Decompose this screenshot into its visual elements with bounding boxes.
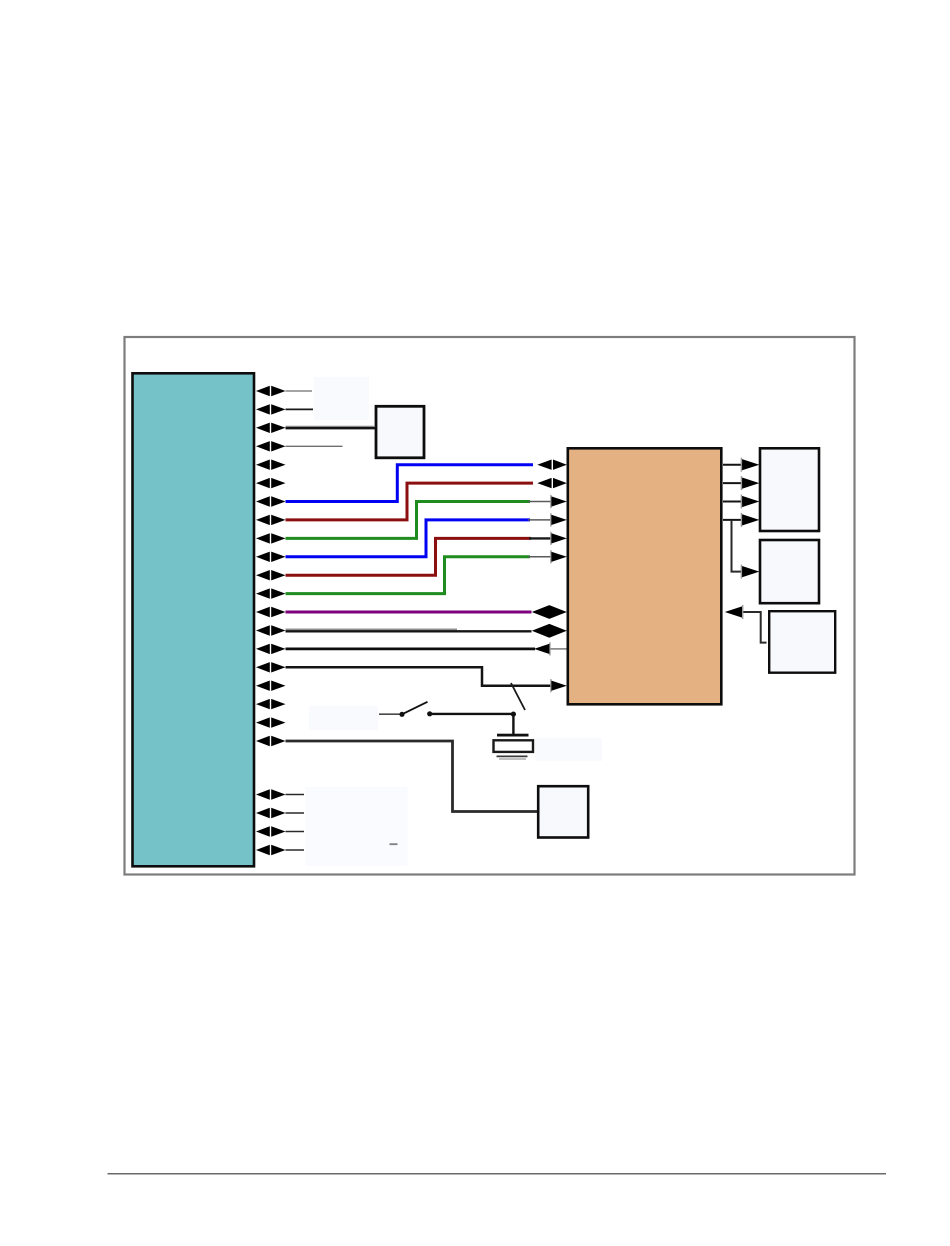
branch wire from line 4 down to B4 bbox=[732, 520, 746, 572]
port arrow P10 on U1 right edge bbox=[256, 552, 286, 562]
gray wire W8 upper stroke: P14 to U2 bbox=[286, 628, 458, 630]
purple wire W7: P13 to U2 bidir diamond port bbox=[286, 611, 532, 614]
port arrow P17 on U1 right edge bbox=[256, 681, 286, 691]
switch SW1 pole dot bbox=[399, 712, 404, 717]
link line W3 to arrowhead bbox=[528, 501, 552, 503]
port arrow P15 on U1 right edge bbox=[256, 644, 286, 654]
bidir diamond arrow at U2 (purple W7) bbox=[532, 605, 567, 619]
port arrow P4 on U1 right edge bbox=[256, 441, 286, 451]
port arrow P13 on U1 right edge bbox=[256, 607, 286, 617]
crystal Y1 shadow line bbox=[499, 758, 526, 760]
white box B4 (middle right) bbox=[760, 540, 819, 603]
microcontroller block U1 (teal) bbox=[133, 373, 255, 866]
stub wire at P1 bbox=[286, 390, 313, 392]
port arrow P18 on U1 right edge bbox=[256, 699, 286, 709]
white box B1 (top small, right of U1) bbox=[376, 406, 424, 458]
crystal Y1 body bbox=[494, 740, 534, 752]
wire from P3 to box B1 (gray top) bbox=[286, 425, 376, 427]
dark red wire W5: P11 to U2 input bbox=[286, 538, 532, 575]
switch SW1 left lead bbox=[379, 713, 400, 715]
black wire W11: P20 to box B2 bbox=[286, 741, 538, 812]
wire U2 to B3 line 4 bbox=[723, 519, 745, 521]
port arrow P3 on U1 right edge bbox=[256, 423, 286, 433]
port arrow P9 on U1 right edge bbox=[256, 533, 286, 543]
port arrow P23 on U1 right edge (lower group) bbox=[256, 826, 286, 836]
bidir double arrow at U2 left edge (blue wire W1) bbox=[537, 460, 567, 470]
input arrow into U2 (W4 blue) bbox=[550, 513, 567, 526]
output arrow from U2 toward U1 (W9) bbox=[534, 642, 551, 655]
port arrow P14 on U1 right edge bbox=[256, 625, 286, 635]
arrow into B3 line 2 bbox=[741, 476, 760, 490]
crystal Y1 top plate bbox=[497, 734, 529, 737]
wire from B5 to U2 right edge bbox=[741, 612, 767, 643]
wire U2 to B3 line 1 bbox=[723, 464, 745, 466]
blue wire W4: P10 to U2 input bbox=[286, 520, 531, 557]
switch SW1 throw dot bbox=[427, 711, 432, 716]
arrow into B4 bbox=[741, 565, 760, 579]
port arrow P5 on U1 right edge bbox=[256, 460, 286, 470]
bidir double arrow at U2 left edge (red wire W2) bbox=[537, 478, 567, 488]
stub wire at P4 bbox=[286, 445, 343, 447]
input arrow into U2 (W6 green) bbox=[550, 550, 567, 563]
port arrow P16 on U1 right edge bbox=[256, 662, 286, 672]
crystal Y1 lower plate line bbox=[497, 755, 528, 757]
stub wire at P24 bbox=[286, 849, 305, 851]
footer rule bbox=[108, 1173, 887, 1175]
black wire W10: P16 down-jog to U2 input bbox=[286, 667, 552, 685]
arrow into B3 line 4 bbox=[741, 513, 760, 527]
crystal Y1 stub wire bbox=[512, 714, 514, 735]
port arrow P1 on U1 right edge bbox=[256, 386, 286, 396]
input arrow into U2 (W3 green) bbox=[550, 495, 567, 508]
outer frame of figure bbox=[125, 337, 855, 875]
small gray dash in bottom label area bbox=[390, 843, 398, 845]
stub wire at P21 bbox=[286, 794, 305, 796]
white box B5 (lower right) bbox=[769, 611, 835, 673]
bus-width slash on W10 bbox=[511, 683, 525, 710]
faint label area near switch bbox=[309, 706, 378, 730]
black wire W8: P14 to U2 bidir diamond port bbox=[286, 630, 532, 632]
port arrow P24 on U1 right edge (lower group) bbox=[256, 845, 286, 855]
port arrow P22 on U1 right edge (lower group) bbox=[256, 808, 286, 818]
port arrow P12 on U1 right edge bbox=[256, 588, 286, 598]
port arrow P7 on U1 right edge bbox=[256, 496, 286, 506]
blue wire W1: P7 to U2 bidir port bbox=[286, 465, 534, 502]
port arrow P6 on U1 right edge bbox=[256, 478, 286, 488]
bidir diamond arrow at U2 (black W8) bbox=[532, 624, 567, 638]
switch SW1 arm (open) bbox=[404, 702, 428, 714]
port arrow P19 on U1 right edge bbox=[256, 717, 286, 727]
faint label area near top ports bbox=[314, 377, 369, 420]
port arrow P8 on U1 right edge bbox=[256, 515, 286, 525]
port arrow P11 on U1 right edge bbox=[256, 570, 286, 580]
port arrow P20 on U1 right edge bbox=[256, 736, 286, 746]
input arrow into U2 (W10) bbox=[550, 679, 567, 692]
arrow into B3 line 3 bbox=[741, 495, 760, 509]
stub wire at P2 bbox=[286, 408, 314, 410]
port arrow P21 on U1 right edge (lower group) bbox=[256, 789, 286, 799]
dark red wire W2: P8 to U2 bidir port bbox=[286, 483, 534, 520]
thin link from W9 arrowhead to U2 edge bbox=[551, 648, 567, 650]
faint label area right of crystal bbox=[535, 738, 602, 761]
wire from P3 to box B1 (black) bbox=[286, 427, 376, 429]
input arrow into U2 (W5 red) bbox=[550, 532, 567, 545]
green wire W3: P9 to U2 input bbox=[286, 502, 531, 539]
wire from SW1 to crystal node bbox=[432, 713, 514, 715]
link line W4 to arrowhead bbox=[528, 519, 552, 521]
green wire W6: P12 to U2 input bbox=[286, 557, 531, 594]
wire U2 to B3 line 2 bbox=[723, 482, 745, 484]
arrow into U2 right edge from B5 bbox=[725, 605, 744, 619]
link line W5 to arrowhead bbox=[529, 537, 552, 539]
faint label area near bottom ports bbox=[306, 787, 408, 866]
link line W6 to arrowhead bbox=[528, 556, 552, 558]
junction node at crystal bbox=[511, 712, 516, 717]
stub wire at P22 bbox=[286, 812, 305, 814]
peripheral block U2 (orange) bbox=[568, 448, 722, 704]
stub wire at P23 bbox=[286, 831, 305, 833]
wire U2 to B3 line 3 bbox=[723, 501, 745, 503]
arrow into B3 line 1 bbox=[741, 458, 760, 472]
white box B3 (top right) bbox=[760, 448, 819, 531]
black wire W9: U2 output to P15 bbox=[286, 648, 536, 651]
white box B2 (bottom small) bbox=[538, 786, 588, 837]
port arrow P2 on U1 right edge bbox=[256, 404, 286, 414]
